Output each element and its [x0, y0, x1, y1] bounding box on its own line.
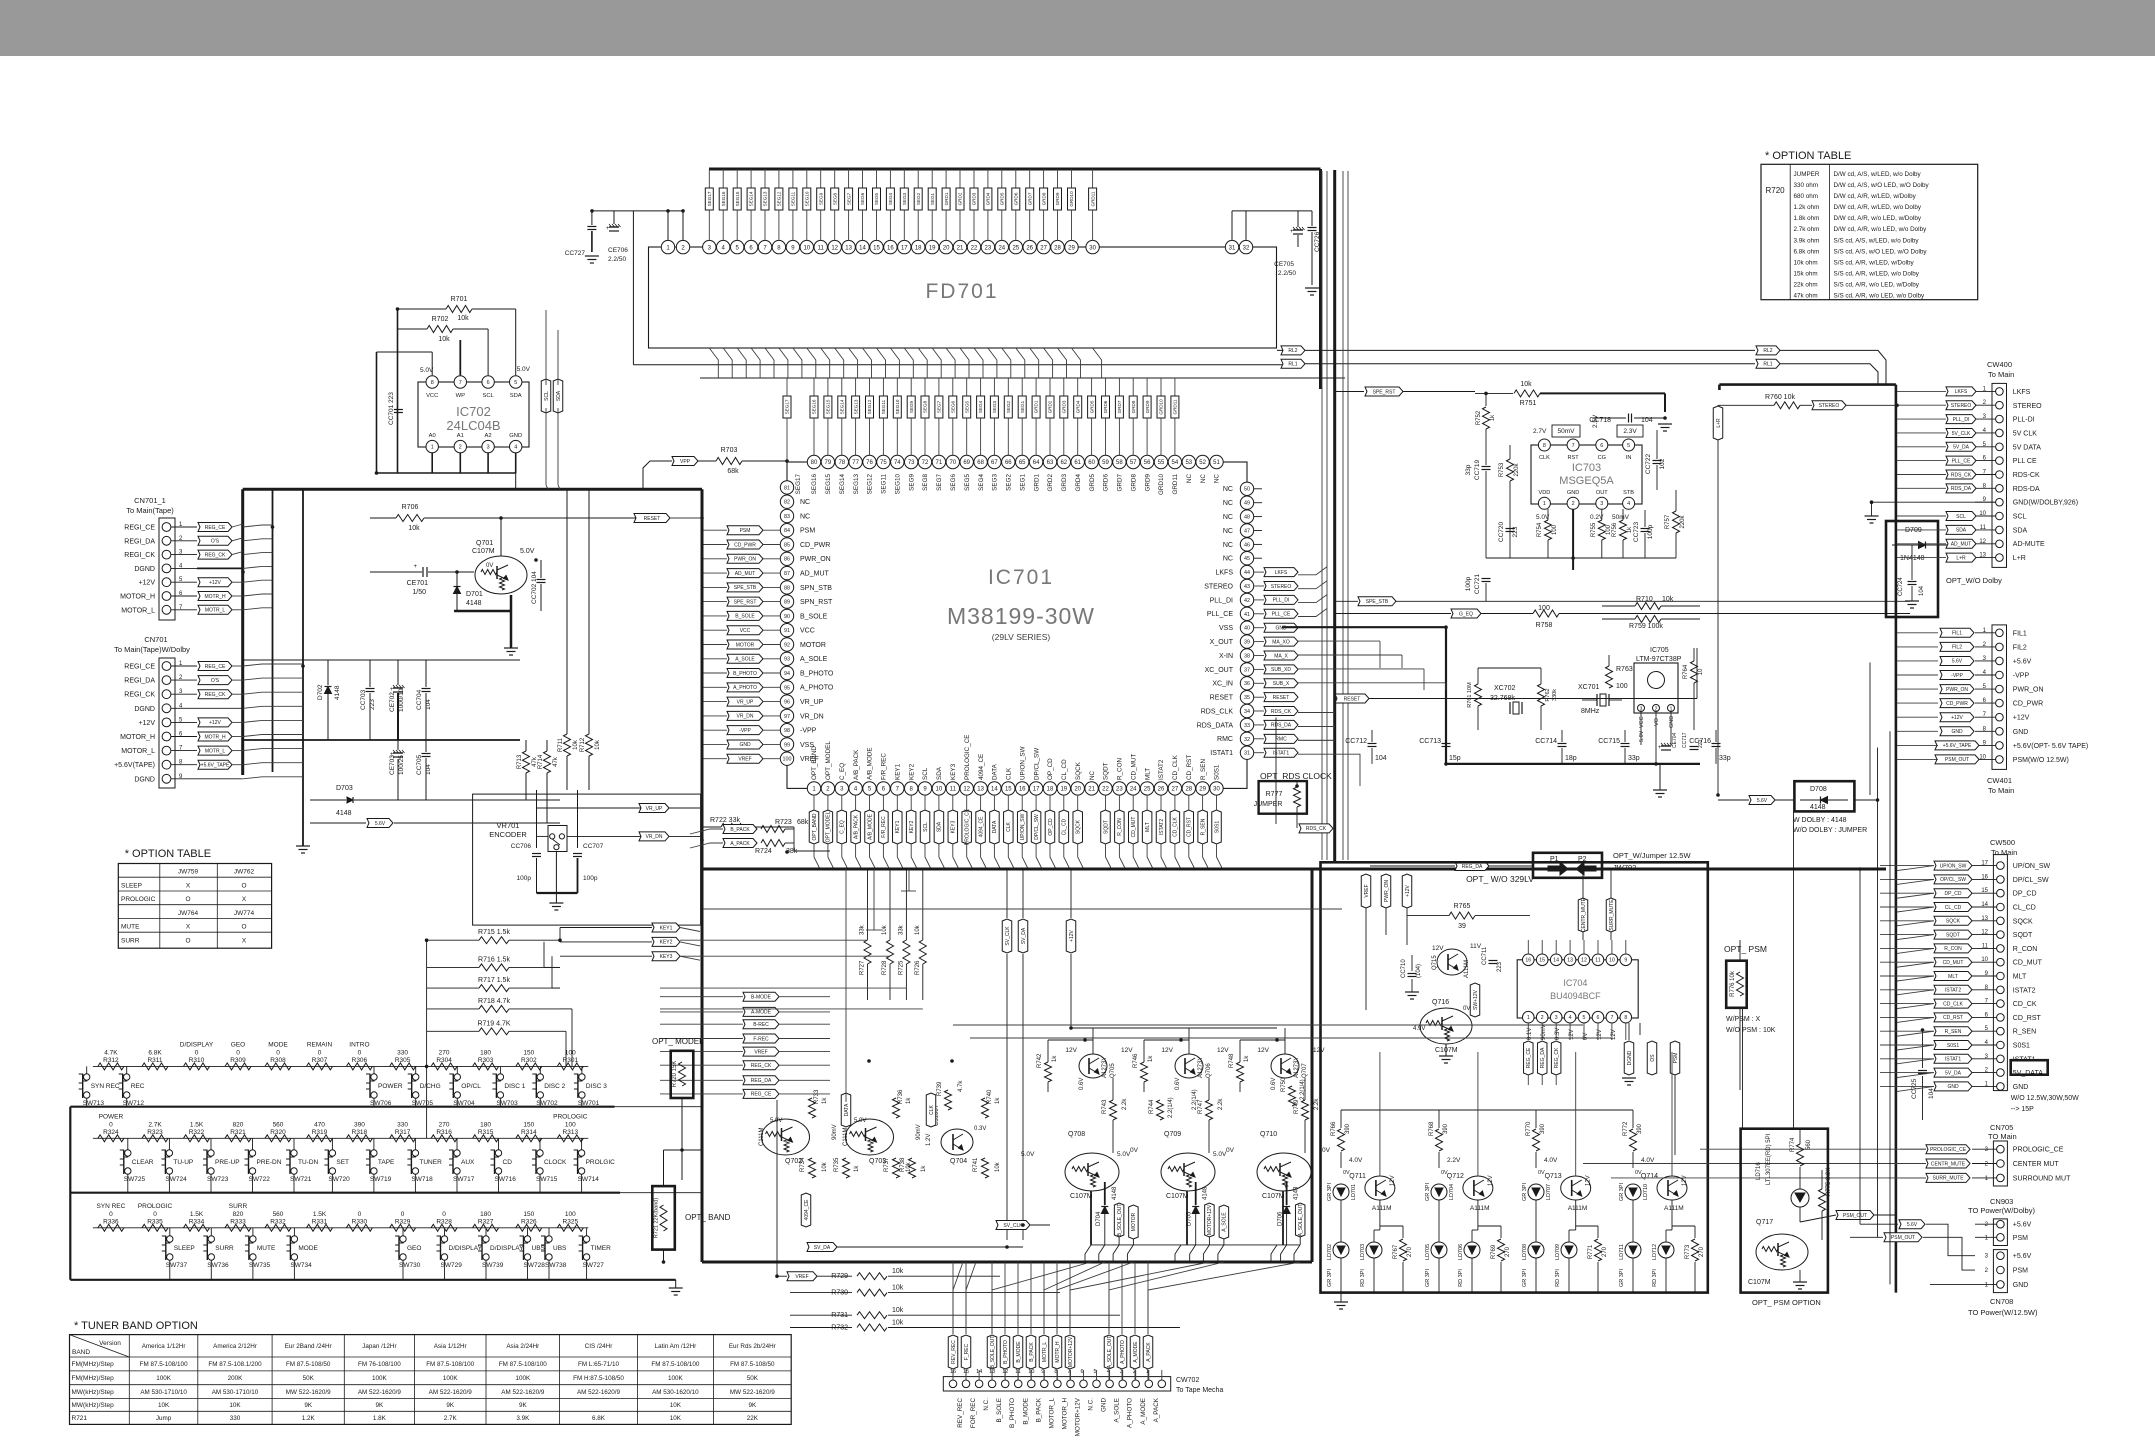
tags VREF REG_CK REG_DA REG_CE [743, 1047, 779, 1056]
svg-text:SEG6: SEG6 [951, 400, 956, 413]
transistor Q701 C107M [475, 556, 527, 594]
svg-text:1.5K: 1.5K [190, 1121, 204, 1128]
svg-text:A_PACK: A_PACK [1146, 1342, 1152, 1362]
resistor R755 100 [1598, 520, 1605, 540]
svg-text:VSS: VSS [1219, 625, 1233, 632]
svg-text:220k: 220k [1680, 514, 1686, 528]
svg-text:MUTE: MUTE [257, 1245, 276, 1252]
svg-text:A_PHOTO: A_PHOTO [733, 685, 757, 691]
svg-text:REG_DA: REG_DA [751, 1078, 772, 1084]
svg-text:12V: 12V [1682, 1175, 1688, 1186]
svg-text:MW(kHz)/Step: MW(kHz)/Step [72, 1402, 115, 1409]
wires X_OUT etc to crystals [1298, 640, 1380, 642]
FD701 pins 1-32 [661, 240, 674, 253]
svg-text:10k: 10k [892, 1285, 904, 1292]
svg-text:7: 7 [1572, 443, 1575, 449]
svg-text:VR_UP: VR_UP [737, 699, 754, 705]
svg-text:GR 3PI: GR 3PI [1425, 1269, 1431, 1288]
svg-text:SEG13: SEG13 [853, 474, 860, 495]
svg-text:GRD4: GRD4 [1075, 474, 1082, 492]
svg-text:REGI_CK: REGI_CK [124, 552, 155, 559]
capacitor CE705 2.2/50 [1293, 229, 1303, 231]
svg-text:To Main(Tape)W/Dolby: To Main(Tape)W/Dolby [114, 645, 190, 654]
capacitor CC704 104 [422, 688, 431, 690]
svg-text:R317: R317 [395, 1129, 411, 1136]
svg-text:1: 1 [1527, 1015, 1530, 1021]
svg-text:GRD11: GRD11 [1090, 191, 1095, 206]
switch matrix row2 resistors R324-R313 [93, 1137, 588, 1139]
svg-text:CD_PWR: CD_PWR [800, 542, 830, 549]
svg-text:6: 6 [487, 380, 490, 386]
svg-text:PWR_ON: PWR_ON [2013, 687, 2044, 694]
svg-text:R329: R329 [395, 1218, 411, 1225]
svg-text:+12V: +12V [1405, 884, 1411, 896]
svg-text:OUT: OUT [1596, 490, 1608, 496]
svg-text:CC721: CC721 [1474, 573, 1481, 594]
svg-text:R324: R324 [103, 1129, 119, 1136]
svg-text:12: 12 [831, 245, 838, 251]
svg-text:CD_MUT: CD_MUT [1943, 960, 1964, 966]
svg-text:17: 17 [1033, 787, 1040, 793]
svg-text:4148: 4148 [1112, 1186, 1118, 1200]
svg-text:81: 81 [784, 485, 790, 491]
svg-text:SQDT: SQDT [1103, 762, 1110, 780]
svg-text:OS: OS [1650, 1054, 1656, 1062]
svg-text:Q705: Q705 [1110, 1063, 1116, 1078]
svg-text:--> 15P: --> 15P [2011, 1106, 2034, 1113]
svg-text:29: 29 [1199, 787, 1206, 793]
svg-text:PROLGIC: PROLGIC [586, 1159, 616, 1166]
svg-text:100K: 100K [372, 1375, 388, 1382]
svg-text:SCL: SCL [2013, 514, 2027, 521]
svg-text:DISC 2: DISC 2 [544, 1083, 565, 1090]
svg-text:330: 330 [230, 1415, 241, 1422]
svg-text:R_CON: R_CON [1117, 818, 1123, 836]
svg-text:R710: R710 [1636, 596, 1653, 603]
capacitor CC726 [1308, 227, 1317, 229]
svg-text:PLL_CE: PLL_CE [1272, 612, 1291, 618]
svg-text:223: 223 [1512, 526, 1519, 537]
svg-text:LTM-97CT38P: LTM-97CT38P [1636, 656, 1682, 663]
svg-text:10K: 10K [158, 1402, 170, 1409]
svg-text:1.2V: 1.2V [926, 1134, 932, 1146]
svg-text:GRD7: GRD7 [1117, 400, 1122, 413]
svg-text:VCC: VCC [1639, 716, 1645, 728]
svg-text:SPE_STB: SPE_STB [1366, 599, 1389, 605]
svg-text:+12V: +12V [138, 580, 155, 587]
svg-text:CENTER MUT: CENTER MUT [2013, 1161, 2060, 1168]
svg-text:To Main: To Main [1988, 786, 2014, 795]
svg-text:62: 62 [1060, 460, 1067, 466]
svg-text:43: 43 [1244, 584, 1250, 590]
svg-text:C107M: C107M [1748, 1279, 1771, 1286]
svg-text:7: 7 [1610, 1015, 1613, 1021]
svg-text:Q713: Q713 [1545, 1173, 1562, 1180]
svg-text:FM 76-108/100: FM 76-108/100 [358, 1361, 401, 1368]
wire rails from connectors [272, 489, 274, 772]
svg-text:100K: 100K [443, 1375, 459, 1382]
svg-text:12V: 12V [1586, 1175, 1592, 1186]
svg-text:RDS_DA: RDS_DA [1271, 723, 1292, 729]
svg-text:CD: CD [503, 1159, 513, 1166]
svg-text:R719 4.7K: R719 4.7K [477, 1020, 510, 1027]
svg-text:R751: R751 [1520, 400, 1537, 407]
svg-text:L+R: L+R [1716, 418, 1722, 428]
svg-text:5.0V: 5.0V [1021, 1151, 1035, 1158]
svg-text:GRD8: GRD8 [1130, 474, 1137, 492]
svg-text:GND: GND [2013, 1282, 2029, 1289]
svg-text:GRD3: GRD3 [972, 192, 977, 205]
svg-text:270: 270 [439, 1049, 450, 1056]
svg-text:CC717: CC717 [1682, 732, 1688, 748]
svg-text:REG_DA: REG_DA [1462, 864, 1483, 870]
svg-text:R777: R777 [1266, 791, 1283, 798]
svg-text:RL1: RL1 [1763, 362, 1772, 368]
IC704 bottom wires + tags [1527, 1023, 1529, 1040]
svg-text:33p: 33p [1628, 755, 1640, 762]
svg-text:45: 45 [1244, 556, 1250, 562]
svg-text:23: 23 [985, 245, 992, 251]
svg-text:PLL_CE: PLL_CE [1952, 458, 1971, 464]
IC701 bottom pins 1-30 [807, 782, 820, 795]
svg-text:B_PHOTO: B_PHOTO [800, 670, 834, 677]
svg-text:JW759: JW759 [178, 869, 199, 876]
svg-text:LD702: LD702 [1327, 1244, 1333, 1260]
svg-text:11: 11 [818, 245, 825, 251]
IC701 right net tags [1264, 568, 1298, 577]
svg-text:26: 26 [1026, 245, 1033, 251]
svg-text:12V: 12V [1217, 1047, 1229, 1054]
svg-text:RD 3PI: RD 3PI [1458, 1269, 1464, 1287]
svg-text:CW400: CW400 [1987, 360, 2012, 369]
svg-text:UP/ON_SW: UP/ON_SW [2013, 863, 2051, 870]
svg-text:R737: R737 [884, 1157, 890, 1172]
svg-text:16: 16 [887, 245, 894, 251]
svg-text:20: 20 [943, 245, 950, 251]
svg-text:LD701: LD701 [1351, 1184, 1357, 1200]
wire 12V rail [1143, 1040, 1145, 1062]
tags DGND OS PSM [1624, 1041, 1634, 1075]
svg-text:1k: 1k [854, 1165, 860, 1172]
svg-text:VR_DN: VR_DN [646, 834, 663, 840]
svg-text:1/50: 1/50 [412, 589, 426, 596]
svg-text:150: 150 [523, 1049, 534, 1056]
svg-text:90mV: 90mV [916, 1124, 922, 1140]
svg-text:12V: 12V [1257, 1047, 1269, 1054]
wire RDS_CK vertical [1275, 718, 1277, 825]
svg-text:ISTAT2: ISTAT2 [2013, 987, 2036, 994]
svg-text:XC702: XC702 [1494, 685, 1516, 692]
svg-text:Asia 2/24Hr: Asia 2/24Hr [506, 1343, 539, 1350]
svg-text:CC719: CC719 [1474, 459, 1481, 480]
svg-text:R770: R770 [1526, 1121, 1532, 1136]
svg-text:GND: GND [1101, 1398, 1108, 1412]
svg-text:DP/CL_SW: DP/CL_SW [1033, 748, 1040, 780]
svg-text:DGND: DGND [134, 566, 155, 573]
svg-text:4148: 4148 [336, 810, 352, 817]
svg-text:14: 14 [1553, 958, 1559, 964]
svg-text:12: 12 [963, 787, 970, 793]
svg-text:PSM(W/O 12.5W): PSM(W/O 12.5W) [2013, 757, 2069, 764]
svg-text:37: 37 [1244, 667, 1250, 673]
junction dots [396, 307, 400, 311]
svg-text:1k: 1k [822, 1097, 828, 1104]
svg-text:O: O [241, 924, 246, 931]
switch matrix row2 switches [120, 1150, 128, 1157]
svg-text:14: 14 [859, 245, 866, 251]
svg-text:FM 87.5-108/100: FM 87.5-108/100 [426, 1361, 474, 1368]
svg-text:2.2V: 2.2V [1447, 1157, 1461, 1164]
svg-text:CLOCK: CLOCK [544, 1159, 567, 1166]
svg-text:R735: R735 [834, 1157, 840, 1172]
tag PSM_OUT [1836, 1211, 1874, 1220]
svg-text:SEG16: SEG16 [811, 474, 818, 495]
svg-text:VCC: VCC [426, 393, 438, 399]
svg-text:1k: 1k [1148, 1055, 1154, 1062]
svg-text:R754: R754 [1537, 522, 1543, 537]
svg-text:R711: R711 [558, 737, 564, 752]
svg-text:R726: R726 [915, 960, 921, 975]
svg-text:2: 2 [459, 445, 462, 451]
svg-text:DGND: DGND [134, 776, 155, 783]
IC701 top pins 80-51 [807, 455, 820, 468]
svg-text:15k ohm: 15k ohm [1794, 270, 1818, 277]
svg-text:MOTR_H: MOTR_H [204, 594, 226, 600]
svg-text:220k: 220k [1514, 462, 1520, 476]
svg-text:5V DATA: 5V DATA [2013, 444, 2041, 451]
svg-text:28: 28 [1185, 787, 1192, 793]
svg-text:52: 52 [1199, 460, 1206, 466]
svg-text:FOR_REC: FOR_REC [970, 1398, 977, 1429]
svg-text:W DOLBY : 4148: W DOLBY : 4148 [1793, 817, 1847, 824]
svg-text:560: 560 [273, 1211, 284, 1218]
svg-text:X: X [242, 896, 247, 903]
svg-text:4148: 4148 [1810, 804, 1826, 811]
svg-text:NC: NC [1223, 500, 1233, 507]
svg-text:OPT_BAND: OPT_BAND [812, 813, 818, 840]
svg-text:10: 10 [1609, 958, 1615, 964]
svg-text:R701: R701 [451, 296, 468, 303]
svg-text:DP/CL_SW: DP/CL_SW [2013, 877, 2049, 884]
svg-text:8: 8 [1543, 443, 1546, 449]
svg-text:R730: R730 [831, 1290, 848, 1297]
svg-text:D/W cd, A/R, w/o LED, w/Dolby: D/W cd, A/R, w/o LED, w/Dolby [1834, 215, 1922, 222]
svg-text:CC715: CC715 [1598, 738, 1620, 745]
svg-text:R725: R725 [898, 960, 904, 975]
svg-text:MUTE: MUTE [121, 924, 140, 931]
svg-text:R738: R738 [900, 1157, 906, 1172]
svg-text:G_EQ: G_EQ [1459, 611, 1473, 617]
svg-text:STEREO: STEREO [2013, 403, 2042, 410]
svg-text:B_SOLE: B_SOLE [996, 1398, 1003, 1423]
svg-text:10k: 10k [595, 739, 601, 750]
svg-text:+: + [413, 564, 417, 570]
svg-text:R313: R313 [563, 1129, 579, 1136]
svg-text:RMC: RMC [1275, 737, 1287, 743]
svg-text:R316: R316 [436, 1129, 452, 1136]
svg-text:MA_XO: MA_XO [1272, 639, 1290, 645]
svg-text:* TUNER BAND OPTION: * TUNER BAND OPTION [74, 1320, 198, 1332]
ground [537, 892, 578, 894]
svg-text:Q706: Q706 [1206, 1063, 1212, 1078]
IC703 MSGEQ5A body [1531, 445, 1642, 504]
svg-text:0V: 0V [486, 563, 493, 569]
svg-text:GND: GND [1947, 1084, 1959, 1090]
wires to CN705 [1700, 1148, 1926, 1150]
svg-text:Q704: Q704 [950, 1158, 967, 1165]
svg-text:SDA: SDA [2013, 527, 2028, 534]
svg-text:IC705: IC705 [1650, 647, 1669, 654]
svg-text:87: 87 [784, 571, 790, 577]
svg-text:N.C.: N.C. [983, 1398, 990, 1411]
svg-text:+5.6V(OPT- 5.6V TAPE): +5.6V(OPT- 5.6V TAPE) [2013, 743, 2088, 750]
svg-text:R768: R768 [1429, 1121, 1435, 1136]
svg-text:0.6V: 0.6V [1271, 1078, 1277, 1090]
svg-text:FM 87.5-108.1/200: FM 87.5-108.1/200 [208, 1361, 262, 1368]
svg-text:100K: 100K [156, 1375, 172, 1382]
svg-text:55: 55 [1158, 460, 1165, 466]
svg-text:R720: R720 [1766, 186, 1786, 195]
svg-text:SW736: SW736 [207, 1262, 229, 1269]
wire GND thick from pin40 [1282, 626, 1446, 628]
svg-text:4.0V: 4.0V [1349, 1157, 1363, 1164]
svg-text:RDS_CK: RDS_CK [1271, 709, 1292, 715]
svg-text:VREF: VREF [1364, 884, 1370, 897]
svg-text:CN705: CN705 [1990, 1123, 2013, 1132]
diode D703 4148 [347, 797, 353, 803]
svg-text:S/S cd, A/S, w/LED, w/o Dolby: S/S cd, A/S, w/LED, w/o Dolby [1834, 237, 1920, 244]
svg-text:270: 270 [439, 1121, 450, 1128]
svg-text:To Main(Tape): To Main(Tape) [126, 506, 174, 515]
svg-text:R755: R755 [1591, 522, 1597, 537]
svg-text:MOTOR_H: MOTOR_H [120, 734, 155, 741]
svg-text:A_SOLE: A_SOLE [1114, 1398, 1121, 1423]
horizontal distribution wires center [703, 908, 1342, 910]
svg-text:SUB_X: SUB_X [1273, 681, 1290, 687]
svg-text:9K: 9K [446, 1402, 455, 1409]
svg-text:PLL CE: PLL CE [2013, 458, 2037, 465]
transistor Q706 A1273Y [1175, 1054, 1203, 1078]
transistor Q703 C111M [846, 1119, 894, 1155]
svg-text:+12V: +12V [209, 580, 221, 586]
svg-text:PSM: PSM [2013, 1268, 2028, 1275]
svg-text:6.8K: 6.8K [592, 1415, 606, 1422]
resistor R775 3.9K [1819, 1189, 1826, 1211]
svg-text:1: 1 [1543, 501, 1546, 507]
svg-text:R772: R772 [1623, 1121, 1629, 1136]
svg-text:R721 22K(band): R721 22K(band) [654, 1198, 660, 1239]
svg-text:AM 522-1620/9: AM 522-1620/9 [358, 1389, 402, 1396]
svg-text:SV_CLK: SV_CLK [1003, 1223, 1023, 1229]
ground under LED stage 1 [1340, 1292, 1342, 1302]
gray header bar [0, 0, 2155, 56]
svg-text:59: 59 [1102, 460, 1109, 466]
svg-text:REV_REC: REV_REC [951, 1340, 957, 1364]
svg-text:America 1/12Hr: America 1/12Hr [142, 1343, 186, 1350]
svg-text:ISTAT1: ISTAT1 [1210, 750, 1233, 757]
svg-text:LD710: LD710 [1643, 1184, 1649, 1200]
IC701 right pins 50-31 [1240, 482, 1253, 495]
svg-text:13: 13 [845, 245, 852, 251]
svg-text:VR_DN: VR_DN [737, 714, 754, 720]
svg-text:5V_DA: 5V_DA [1953, 445, 1970, 451]
wire pin2 gnd [1572, 509, 1574, 570]
svg-text:A_SOLE: A_SOLE [800, 656, 828, 663]
svg-text:CLEAR: CLEAR [132, 1159, 154, 1166]
svg-text:180: 180 [480, 1211, 491, 1218]
svg-text:D/W cd, A/R, w/LED, w/Dolby: D/W cd, A/R, w/LED, w/Dolby [1834, 193, 1917, 200]
svg-text:MODE: MODE [298, 1245, 318, 1252]
svg-text:GRD3: GRD3 [1061, 474, 1068, 492]
svg-text:GRD8: GRD8 [1041, 192, 1046, 205]
svg-text:LKFS: LKFS [1215, 570, 1233, 577]
svg-text:2.2/50: 2.2/50 [608, 256, 626, 263]
svg-text:SEG4: SEG4 [978, 400, 983, 413]
svg-text:CC701 223: CC701 223 [388, 392, 395, 425]
svg-text:MLT: MLT [2013, 974, 2027, 981]
svg-text:(104): (104) [1416, 964, 1422, 978]
svg-text:27: 27 [1172, 787, 1179, 793]
svg-text:2.2/50: 2.2/50 [1278, 270, 1296, 277]
svg-text:10k: 10k [892, 1268, 904, 1275]
svg-text:47k ohm: 47k ohm [1794, 293, 1818, 300]
svg-text:DP/CL_SW: DP/CL_SW [1034, 814, 1040, 840]
svg-text:DP_CD: DP_CD [1945, 891, 1962, 897]
svg-text:82: 82 [784, 500, 790, 506]
svg-text:104: 104 [1919, 585, 1925, 596]
svg-text:68: 68 [977, 460, 984, 466]
svg-text:VR_UP: VR_UP [646, 806, 663, 812]
svg-text:SEG6: SEG6 [950, 474, 957, 491]
svg-text:CW702: CW702 [1176, 1377, 1199, 1384]
node RL2 RL1 wires [1277, 349, 1755, 351]
svg-text:C111M: C111M [759, 1128, 765, 1146]
svg-text:50K: 50K [747, 1375, 759, 1382]
svg-text:CC720: CC720 [1498, 521, 1505, 542]
svg-text:RL1: RL1 [1288, 362, 1297, 368]
svg-text:MOTOR_H: MOTOR_H [1062, 1398, 1069, 1430]
svg-text:+12V: +12V [1951, 715, 1963, 721]
svg-text:29: 29 [1068, 245, 1075, 251]
svg-text:GRD11: GRD11 [1173, 399, 1178, 414]
svg-text:CN708: CN708 [1990, 1297, 2013, 1306]
svg-text:MA_X: MA_X [1274, 653, 1288, 659]
svg-text:DGND: DGND [1627, 1050, 1633, 1065]
svg-text:L+R: L+R [2013, 555, 2026, 562]
capacitor CE702 1000/10 [393, 687, 403, 689]
svg-text:PROLOGIC_CE: PROLOGIC_CE [2013, 1147, 2064, 1154]
svg-text:A1273Y: A1273Y [1102, 1057, 1108, 1078]
svg-text:GND: GND [1567, 490, 1579, 496]
svg-text:R723: R723 [775, 819, 792, 826]
svg-text:DGND: DGND [134, 706, 155, 713]
svg-text:OPT_MODEL: OPT_MODEL [825, 741, 832, 780]
svg-text:5: 5 [1627, 443, 1630, 449]
svg-text:SPE_STB: SPE_STB [734, 585, 757, 591]
svg-text:R713: R713 [517, 754, 523, 769]
svg-text:REG_DA: REG_DA [1540, 1047, 1546, 1068]
svg-text:SW715: SW715 [536, 1176, 558, 1183]
svg-text:NC: NC [1214, 474, 1221, 484]
diode D706 4148 [1283, 1207, 1290, 1214]
svg-text:STEREO: STEREO [1204, 583, 1233, 590]
svg-text:SEG8: SEG8 [832, 192, 837, 205]
ground [1659, 789, 1661, 791]
svg-text:B_SOLE: B_SOLE [800, 613, 828, 620]
svg-text:10K: 10K [670, 1402, 682, 1409]
svg-text:SEG7: SEG7 [846, 192, 851, 205]
svg-text:CC724: CC724 [1898, 577, 1904, 596]
